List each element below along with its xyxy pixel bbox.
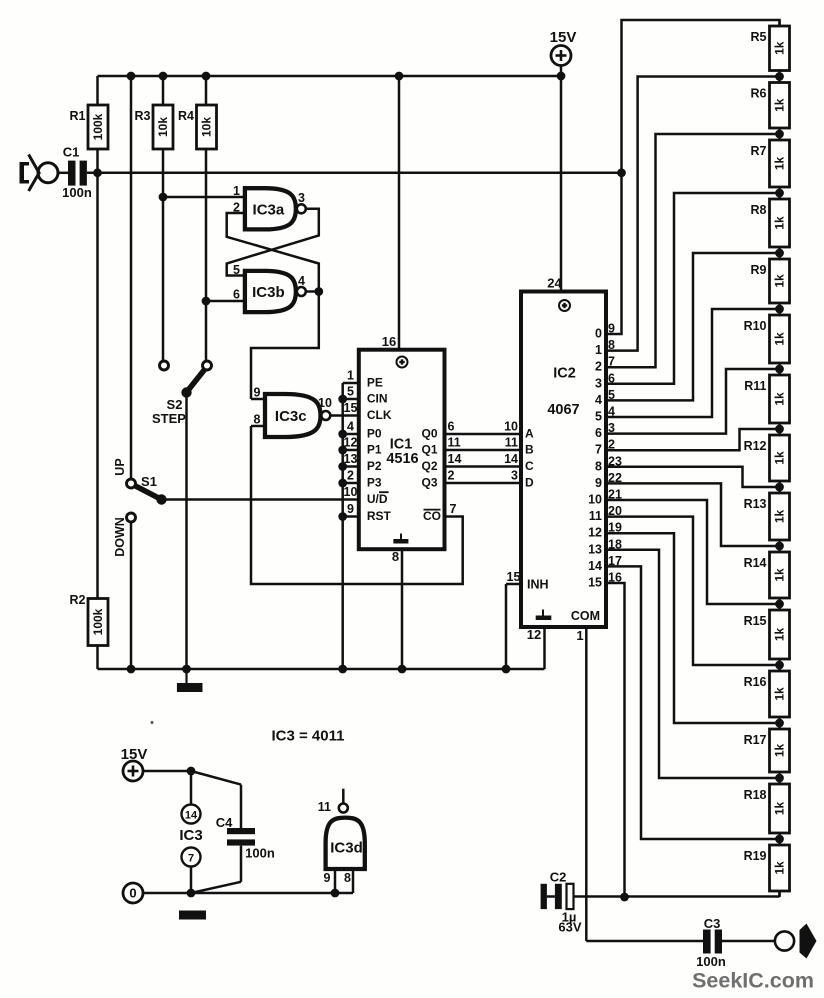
- svg-text:7: 7: [188, 853, 194, 865]
- svg-text:4: 4: [595, 393, 602, 407]
- svg-text:R14: R14: [744, 556, 767, 570]
- svg-text:1k: 1k: [773, 510, 787, 524]
- svg-text:A: A: [525, 426, 534, 440]
- svg-text:100n: 100n: [696, 954, 726, 969]
- svg-text:1k: 1k: [773, 157, 787, 171]
- svg-text:P0: P0: [367, 426, 382, 440]
- svg-text:IC3b: IC3b: [252, 284, 285, 301]
- svg-text:P3: P3: [367, 475, 382, 489]
- svg-text:INH: INH: [527, 577, 549, 591]
- svg-text:1: 1: [576, 628, 583, 643]
- svg-text:1k: 1k: [773, 274, 787, 288]
- svg-text:R10: R10: [744, 319, 767, 333]
- svg-text:6: 6: [233, 288, 240, 302]
- svg-text:12: 12: [527, 627, 541, 642]
- svg-text:10: 10: [318, 396, 332, 410]
- svg-text:9: 9: [347, 502, 354, 516]
- svg-text:3: 3: [298, 191, 305, 205]
- svg-text:R18: R18: [744, 788, 767, 802]
- svg-text:14: 14: [185, 810, 198, 822]
- svg-text:16: 16: [382, 334, 396, 349]
- svg-text:R9: R9: [751, 263, 767, 277]
- svg-text:9: 9: [254, 386, 261, 400]
- svg-text:STEP: STEP: [152, 411, 186, 426]
- svg-text:10: 10: [344, 485, 358, 499]
- svg-text:Q3: Q3: [421, 475, 437, 489]
- svg-text:2: 2: [448, 469, 455, 483]
- svg-text:1k: 1k: [773, 98, 787, 112]
- svg-text:R4: R4: [178, 109, 194, 123]
- svg-text:12: 12: [588, 526, 602, 540]
- svg-text:P1: P1: [367, 442, 382, 456]
- svg-text:8: 8: [344, 871, 351, 885]
- svg-text:2: 2: [347, 469, 354, 483]
- svg-text:7: 7: [450, 502, 457, 516]
- svg-text:C3: C3: [704, 916, 721, 931]
- svg-text:100n: 100n: [62, 185, 92, 200]
- svg-text:U/D: U/D: [367, 492, 388, 506]
- svg-text:UP: UP: [113, 458, 127, 475]
- svg-text:14: 14: [588, 559, 602, 573]
- svg-text:9: 9: [595, 476, 602, 490]
- svg-text:COM: COM: [571, 609, 600, 623]
- svg-text:15: 15: [588, 576, 602, 590]
- svg-text:100n: 100n: [245, 846, 275, 861]
- svg-text:100k: 100k: [91, 113, 105, 140]
- svg-text:6: 6: [448, 420, 455, 434]
- svg-text:R15: R15: [744, 614, 767, 628]
- svg-text:IC3: IC3: [179, 827, 202, 844]
- svg-text:R16: R16: [744, 675, 767, 689]
- svg-text:D: D: [525, 475, 534, 489]
- svg-text:1: 1: [595, 343, 602, 357]
- svg-text:4: 4: [347, 420, 354, 434]
- svg-text:6: 6: [595, 426, 602, 440]
- svg-text:1k: 1k: [773, 332, 787, 346]
- svg-text:12: 12: [344, 436, 358, 450]
- svg-text:11: 11: [505, 436, 518, 450]
- svg-text:63V: 63V: [558, 920, 581, 935]
- svg-text:S2: S2: [167, 397, 183, 412]
- svg-text:1k: 1k: [773, 628, 787, 642]
- svg-text:1k: 1k: [773, 568, 787, 582]
- svg-text:5: 5: [595, 410, 602, 424]
- svg-text:13: 13: [344, 452, 358, 466]
- svg-text:1k: 1k: [773, 216, 787, 230]
- svg-text:2: 2: [233, 201, 240, 215]
- svg-text:1k: 1k: [773, 41, 787, 55]
- svg-text:C: C: [525, 459, 534, 473]
- svg-text:R5: R5: [751, 30, 767, 44]
- svg-text:5: 5: [233, 263, 240, 277]
- svg-text:R11: R11: [744, 379, 766, 393]
- svg-text:CLK: CLK: [367, 408, 392, 422]
- svg-text:15: 15: [344, 401, 358, 415]
- svg-text:Q0: Q0: [421, 426, 437, 440]
- svg-text:10: 10: [504, 420, 518, 434]
- svg-text:100k: 100k: [91, 608, 105, 635]
- svg-text:3: 3: [595, 376, 602, 390]
- svg-text:8: 8: [392, 549, 399, 564]
- svg-text:C2: C2: [550, 870, 567, 885]
- svg-text:1k: 1k: [773, 802, 787, 816]
- svg-text:11: 11: [318, 800, 331, 814]
- svg-text:10k: 10k: [200, 117, 214, 137]
- svg-text:14: 14: [448, 452, 462, 466]
- svg-text:1k: 1k: [773, 744, 787, 758]
- svg-text:15: 15: [507, 570, 521, 584]
- svg-text:B: B: [525, 442, 534, 456]
- svg-text:R3: R3: [135, 109, 151, 123]
- svg-text:Q1: Q1: [421, 442, 437, 456]
- svg-text:1: 1: [233, 184, 240, 198]
- svg-text:15V: 15V: [550, 29, 577, 46]
- svg-text:0: 0: [595, 327, 602, 341]
- svg-text:Q2: Q2: [421, 459, 437, 473]
- svg-text:R1: R1: [70, 109, 86, 123]
- svg-text:R12: R12: [744, 439, 767, 453]
- svg-text:IC3 = 4011: IC3 = 4011: [272, 728, 345, 745]
- svg-text:1k: 1k: [773, 392, 787, 406]
- svg-text:P2: P2: [367, 459, 382, 473]
- svg-text:11: 11: [589, 509, 602, 523]
- svg-text:2: 2: [595, 360, 602, 374]
- svg-text:1: 1: [347, 369, 354, 383]
- svg-text:C4: C4: [216, 815, 233, 830]
- svg-text:CIN: CIN: [367, 391, 388, 405]
- svg-text:S1: S1: [141, 474, 157, 489]
- svg-text:R17: R17: [744, 733, 767, 747]
- svg-text:IC2: IC2: [553, 366, 576, 382]
- svg-text:4: 4: [298, 274, 305, 288]
- svg-text:4067: 4067: [547, 402, 579, 418]
- svg-text:IC3a: IC3a: [253, 201, 285, 218]
- svg-text:IC3d: IC3d: [330, 840, 363, 857]
- svg-text:24: 24: [547, 276, 562, 291]
- svg-text:0: 0: [129, 886, 136, 901]
- svg-text:IC3c: IC3c: [275, 408, 307, 425]
- svg-text:10k: 10k: [156, 117, 170, 137]
- svg-text:8: 8: [254, 413, 261, 427]
- svg-text:13: 13: [588, 542, 602, 556]
- svg-text:R7: R7: [751, 144, 767, 158]
- svg-text:1k: 1k: [773, 687, 787, 701]
- svg-text:5: 5: [347, 385, 354, 399]
- svg-text:1k: 1k: [773, 861, 787, 875]
- svg-text:SeekIC.com: SeekIC.com: [692, 969, 814, 993]
- svg-text:7: 7: [595, 443, 602, 457]
- svg-text:RST: RST: [367, 509, 392, 523]
- svg-text:14: 14: [504, 452, 518, 466]
- svg-text:10: 10: [588, 493, 602, 507]
- svg-text:R8: R8: [751, 203, 767, 217]
- svg-text:R2: R2: [70, 593, 86, 607]
- svg-text:R19: R19: [744, 849, 767, 863]
- svg-text:R13: R13: [744, 497, 767, 511]
- svg-text:11: 11: [448, 436, 461, 450]
- svg-text:DOWN: DOWN: [113, 517, 127, 557]
- svg-text:3: 3: [511, 469, 518, 483]
- svg-text:8: 8: [595, 459, 602, 473]
- svg-text:R6: R6: [751, 87, 767, 101]
- svg-text:4516: 4516: [386, 451, 418, 467]
- svg-text:9: 9: [324, 871, 331, 885]
- svg-text:CO: CO: [423, 509, 441, 523]
- svg-text:PE: PE: [367, 375, 383, 389]
- svg-text:C1: C1: [63, 145, 80, 160]
- svg-text:1k: 1k: [773, 451, 787, 465]
